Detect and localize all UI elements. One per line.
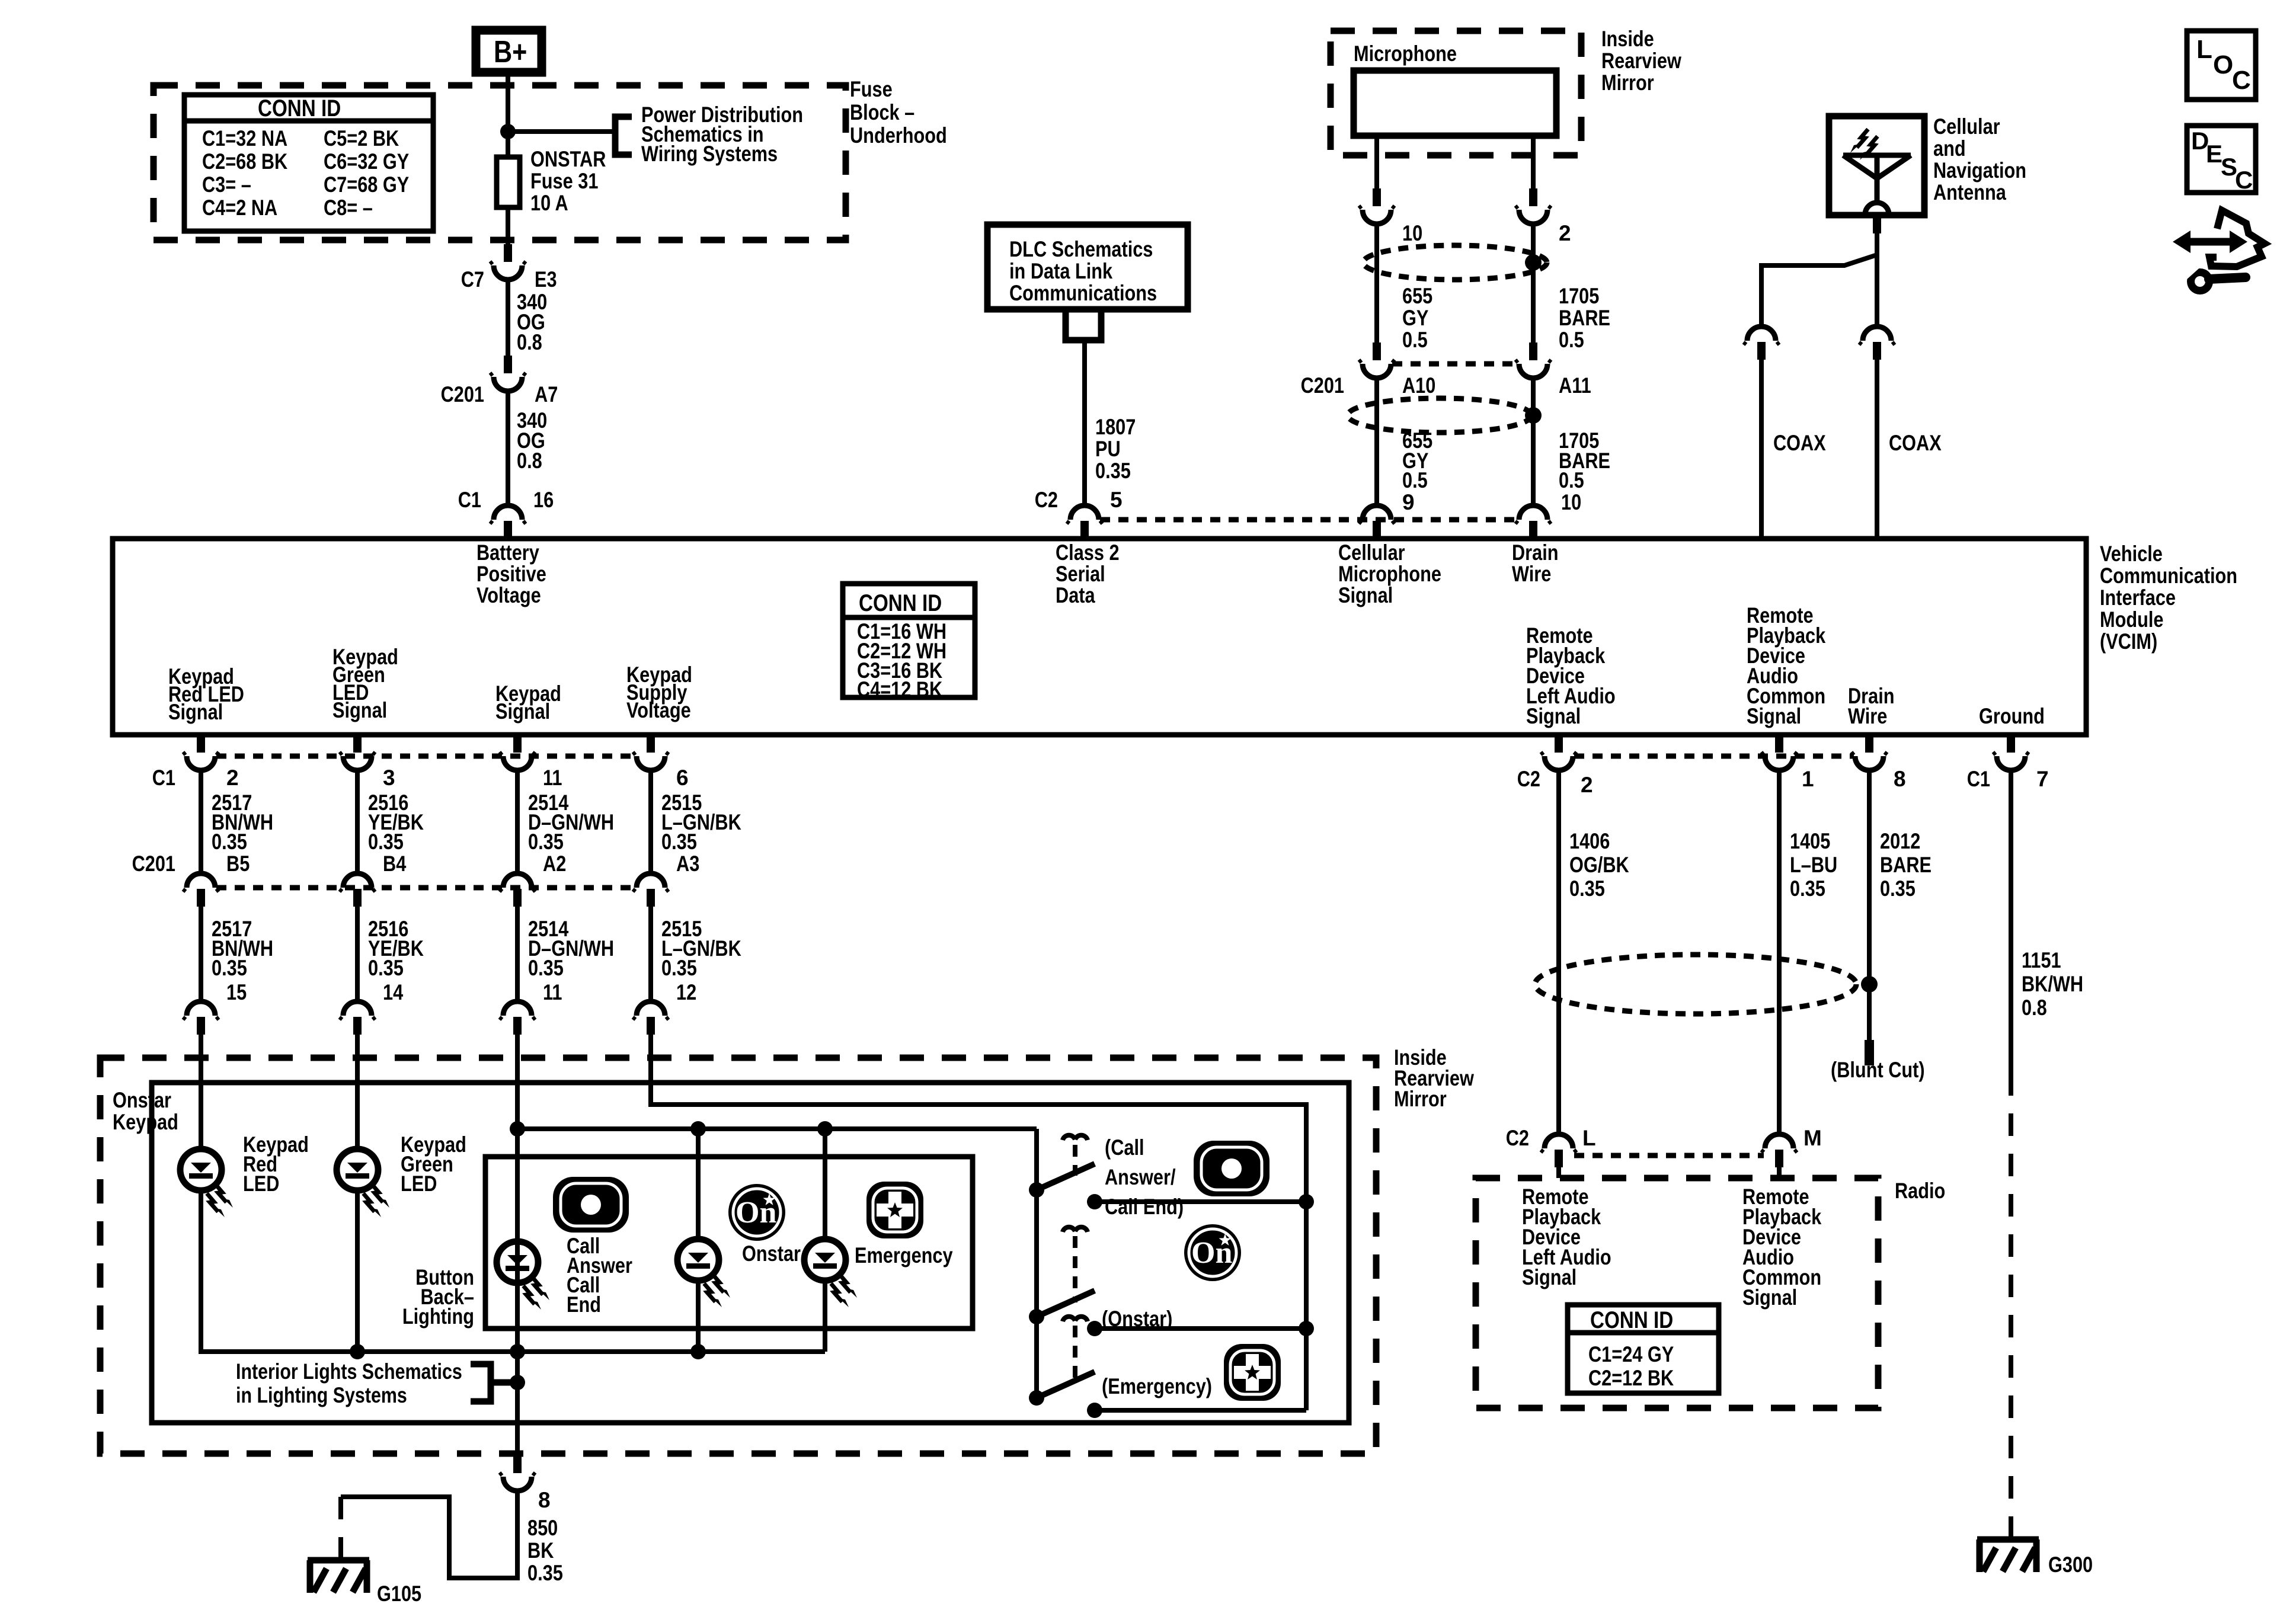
svg-text:Voltage: Voltage	[626, 698, 691, 722]
connector keypad pin 12	[633, 1001, 669, 1035]
svg-text:655: 655	[1402, 284, 1432, 308]
wire 2514 D-GN WH segment 2	[517, 907, 614, 1004]
pin label remote playback device audio common signal	[1747, 603, 1826, 728]
svg-text:in Data Link: in Data Link	[1009, 259, 1112, 283]
connector C7 pin E3	[461, 244, 557, 292]
svg-text:BK: BK	[527, 1538, 554, 1563]
svg-text:Underhood: Underhood	[850, 123, 947, 148]
wire 2514 D-GN WH segment 1	[517, 772, 614, 873]
wire backlight return	[515, 1352, 520, 1423]
pin label drain wire bottom	[1848, 684, 1895, 728]
svg-text:850: 850	[527, 1516, 558, 1540]
svg-text:C1=24 GY: C1=24 GY	[1588, 1342, 1674, 1366]
switch call answer	[1029, 1135, 1095, 1198]
svg-text:3: 3	[383, 766, 395, 790]
node junction at power tap	[500, 124, 516, 139]
pin label drain wire top	[1512, 540, 1559, 586]
svg-text:0.35: 0.35	[212, 956, 247, 980]
wire 2517 BN WH segment 1	[201, 772, 273, 873]
svg-text:C6=32 GY: C6=32 GY	[324, 149, 410, 174]
LED keypad green	[337, 1132, 466, 1217]
svg-text:Microphone: Microphone	[1354, 41, 1457, 66]
svg-text:Signal: Signal	[1747, 704, 1801, 728]
wire dashed drop to G105	[338, 1497, 343, 1558]
pin label keypad red LED signal	[168, 664, 244, 724]
svg-text:B+: B+	[494, 35, 527, 69]
svg-text:1807: 1807	[1095, 415, 1136, 439]
node call led cathode	[510, 1344, 525, 1359]
svg-text:10: 10	[1561, 490, 1581, 514]
svg-text:PU: PU	[1095, 437, 1121, 461]
dashed connector line C2 row top	[1100, 517, 1518, 523]
connector mic pin 10	[1359, 188, 1422, 245]
wire 2517 BN WH segment 2	[201, 907, 273, 1004]
svg-text:Answer/: Answer/	[1105, 1165, 1176, 1189]
svg-text:B5: B5	[226, 852, 250, 876]
wire supply voltage routing	[651, 1083, 1306, 1410]
wire mic left lead	[1374, 136, 1379, 188]
svg-text:BK/WH: BK/WH	[2022, 972, 2083, 996]
connector cellular microphone signal pin 9	[1359, 505, 1395, 539]
svg-text:ONSTAR: ONSTAR	[530, 147, 606, 171]
icon onstar right	[1184, 1224, 1241, 1281]
svg-text:Communications: Communications	[1009, 281, 1157, 305]
label power distribution schematics	[641, 103, 803, 166]
svg-text:(Call: (Call	[1105, 1135, 1144, 1160]
svg-text:Drain: Drain	[1512, 540, 1559, 565]
pin label remote playback left audio radio	[1522, 1185, 1611, 1289]
svg-text:(Emergency): (Emergency)	[1102, 1374, 1212, 1398]
svg-text:0.35: 0.35	[212, 830, 247, 854]
svg-text:End: End	[567, 1292, 601, 1317]
icon emergency right	[1224, 1344, 1281, 1401]
connector pin M radio	[1761, 1126, 1822, 1167]
wire 1705 BARE segment 2	[1533, 379, 1610, 514]
svg-text:DLC Schematics: DLC Schematics	[1009, 237, 1153, 261]
node onstar led cathode	[690, 1344, 706, 1359]
svg-text:Interface: Interface	[2100, 585, 2176, 610]
svg-text:C1: C1	[1967, 767, 1990, 791]
svg-text:16: 16	[533, 488, 554, 512]
dashed connector line C2 row below VCIM	[1574, 754, 1854, 759]
svg-text:9: 9	[1402, 490, 1415, 514]
icon emergency left	[866, 1182, 923, 1238]
node green led cathode	[350, 1344, 365, 1359]
wire call led down	[515, 1241, 520, 1352]
connector pin 8 below VCIM	[1851, 735, 1906, 791]
svg-text:Mirror: Mirror	[1601, 71, 1654, 95]
LOC box	[2187, 31, 2256, 100]
connector C201 pin A10	[1301, 343, 1436, 398]
connector C1 pin 2 below VCIM	[152, 735, 239, 790]
wire 2516 YE BK segment 1	[357, 772, 424, 873]
svg-text:C7: C7	[461, 267, 484, 292]
svg-text:C1=32 NA: C1=32 NA	[202, 126, 287, 151]
dashed connector line C1 row below VCIM	[216, 754, 635, 759]
svg-text:Fuse: Fuse	[850, 77, 893, 101]
svg-text:Communication: Communication	[2100, 564, 2237, 588]
svg-text:C4=2 NA: C4=2 NA	[202, 196, 277, 220]
svg-text:Signal: Signal	[1338, 583, 1393, 607]
wire COAX left	[1761, 360, 1826, 536]
svg-text:Signal: Signal	[1742, 1285, 1797, 1310]
connector keypad pin 14	[340, 1001, 375, 1035]
ground G300	[1977, 1539, 2093, 1577]
svg-text:0.5: 0.5	[1559, 328, 1584, 352]
svg-text:Rearview: Rearview	[1601, 49, 1681, 73]
svg-text:Module: Module	[2100, 607, 2164, 632]
node shield junction upper	[1525, 254, 1542, 271]
LED onstar	[677, 1129, 801, 1352]
conn id table fuse block	[184, 95, 433, 231]
svg-text:LED: LED	[243, 1172, 279, 1196]
svg-text:BARE: BARE	[1880, 853, 1932, 877]
ground G105	[308, 1560, 421, 1606]
switch emergency	[1029, 1317, 1095, 1406]
svg-text:C2: C2	[1506, 1126, 1529, 1150]
svg-text:2012: 2012	[1880, 829, 1920, 853]
wire dashed drop to G300	[2009, 1073, 2013, 1537]
connector C2 pin L radio	[1506, 1126, 1596, 1167]
svg-text:0.35: 0.35	[1095, 459, 1131, 483]
conn id table radio	[1568, 1305, 1719, 1393]
svg-text:LED: LED	[401, 1172, 437, 1196]
svg-text:0.5: 0.5	[1402, 328, 1428, 352]
svg-text:Antenna: Antenna	[1933, 180, 2006, 204]
svg-text:C4=12 BK: C4=12 BK	[857, 677, 942, 702]
svg-text:G300: G300	[2048, 1553, 2093, 1577]
svg-text:L: L	[2196, 35, 2212, 64]
connector C201 pin A3	[633, 852, 699, 907]
svg-text:Wiring Systems: Wiring Systems	[641, 142, 778, 166]
svg-text:and: and	[1933, 136, 1966, 161]
svg-text:Inside: Inside	[1601, 27, 1654, 51]
wire fuse to C7	[506, 207, 510, 244]
wire keypad leads into box	[201, 1035, 651, 1083]
bracket below DLC box	[1066, 309, 1101, 340]
connector C1 pin 7 below VCIM	[1967, 735, 2049, 791]
node interior lights tap	[510, 1375, 525, 1390]
svg-text:G105: G105	[377, 1582, 421, 1606]
svg-text:15: 15	[226, 980, 247, 1004]
svg-text:C1: C1	[152, 766, 175, 790]
wire 1405 L-BU	[1779, 772, 1837, 1134]
svg-text:C: C	[2232, 66, 2251, 95]
svg-text:0.35: 0.35	[368, 956, 404, 980]
connector pin 6 below VCIM	[633, 735, 689, 790]
icon call answer right	[1194, 1141, 1269, 1196]
fuse block underhood dashed box	[154, 85, 846, 240]
svg-text:Mirror: Mirror	[1394, 1087, 1447, 1111]
wire switch1 output	[1087, 1194, 1314, 1209]
svg-text:Block –: Block –	[850, 100, 914, 124]
wire mic right lead	[1531, 136, 1536, 188]
svg-text:Battery: Battery	[477, 540, 539, 565]
connector C201 pin A11	[1515, 343, 1591, 398]
twisted pair ellipse lower	[1348, 398, 1531, 433]
svg-text:C201: C201	[441, 382, 484, 406]
svg-text:0.35: 0.35	[1569, 876, 1605, 901]
node switch3 contact	[1087, 1403, 1102, 1418]
svg-text:in Lighting Systems: in Lighting Systems	[236, 1383, 407, 1407]
wire led anode bus	[517, 1126, 1037, 1131]
svg-text:0.5: 0.5	[1559, 468, 1584, 492]
button backlighting inner box	[485, 1157, 973, 1329]
svg-text:(Blunt Cut): (Blunt Cut)	[1831, 1058, 1925, 1082]
svg-text:Voltage: Voltage	[477, 583, 541, 607]
pin label keypad signal	[495, 681, 561, 724]
svg-text:0.35: 0.35	[527, 1561, 563, 1585]
pin label remote playback audio common radio	[1742, 1185, 1822, 1310]
svg-text:CONN ID: CONN ID	[258, 95, 341, 121]
wire COAX right	[1877, 360, 1942, 536]
svg-text:8: 8	[538, 1488, 551, 1512]
connector C201 pin A7	[441, 356, 558, 406]
pin label keypad green LED signal	[332, 645, 398, 722]
wire switch3 output	[1095, 1408, 1306, 1413]
svg-text:2: 2	[226, 766, 239, 790]
svg-text:C201: C201	[132, 852, 175, 876]
microphone box	[1354, 41, 1556, 136]
DESC box	[2187, 126, 2256, 194]
svg-text:OG/BK: OG/BK	[1569, 853, 1629, 877]
svg-text:0.8: 0.8	[517, 449, 542, 473]
svg-text:C3= –: C3= –	[202, 172, 251, 197]
wire led cathode bus	[201, 1190, 825, 1352]
svg-text:Signal: Signal	[332, 698, 387, 722]
connector C201 pin A2	[500, 852, 566, 907]
svg-text:GY: GY	[1402, 306, 1429, 330]
dashed connector line C201 row keypad	[216, 885, 635, 891]
wire 655 GY segment 2	[1377, 379, 1432, 514]
wire 1705 BARE segment 1	[1533, 225, 1610, 352]
connector C2 pin 2 below VCIM	[1517, 735, 1593, 797]
twisted pair ellipse audio	[1535, 955, 1856, 1014]
svg-text:A11: A11	[1559, 373, 1591, 398]
connector coax left	[1744, 327, 1779, 360]
wire keypad signal to led bus	[515, 1083, 520, 1241]
svg-text:(Onstar): (Onstar)	[1102, 1307, 1172, 1331]
svg-text:Cellular: Cellular	[1933, 114, 2000, 139]
svg-text:0.35: 0.35	[528, 830, 564, 854]
wire 1151 BK WH ground	[2011, 772, 2083, 1073]
svg-text:Signal: Signal	[1526, 704, 1581, 728]
svg-text:E: E	[2206, 140, 2223, 168]
svg-text:Positive: Positive	[477, 562, 546, 586]
svg-text:C2: C2	[1517, 767, 1540, 791]
connector drain wire pin 10	[1515, 505, 1551, 539]
keypad inner box	[152, 1083, 1349, 1423]
VCIM module box	[113, 539, 2086, 735]
connector C201 pin B4	[340, 852, 407, 907]
svg-text:E3: E3	[535, 267, 557, 292]
svg-text:Navigation: Navigation	[1933, 158, 2026, 183]
pin label class 2 serial data	[1056, 540, 1120, 607]
svg-text:0.35: 0.35	[1880, 876, 1916, 901]
svg-text:Signal: Signal	[1522, 1265, 1576, 1289]
svg-text:Interior Lights Schematics: Interior Lights Schematics	[236, 1359, 462, 1384]
svg-text:C: C	[2235, 166, 2253, 194]
conn id table VCIM	[843, 584, 975, 702]
svg-text:14: 14	[383, 980, 404, 1004]
svg-text:Radio: Radio	[1895, 1179, 1945, 1203]
svg-text:Signal: Signal	[168, 700, 223, 724]
pin label remote playback device left audio signal	[1526, 623, 1616, 728]
icon onstar left	[728, 1184, 785, 1241]
wire keypad green led feed	[355, 1083, 360, 1149]
svg-text:(VCIM): (VCIM)	[2100, 629, 2157, 654]
switch onstar	[1029, 1227, 1095, 1324]
wire 340 OG segment 2	[508, 392, 547, 505]
svg-text:C1: C1	[458, 488, 481, 512]
bracket power distribution	[615, 117, 632, 155]
wire 850 BK	[341, 1492, 563, 1585]
svg-text:0.5: 0.5	[1402, 468, 1428, 492]
svg-text:10: 10	[1402, 221, 1422, 245]
svg-text:Onstar: Onstar	[113, 1088, 171, 1112]
svg-text:0.35: 0.35	[661, 956, 697, 980]
svg-text:COAX: COAX	[1889, 431, 1942, 455]
svg-text:Vehicle: Vehicle	[2100, 542, 2163, 566]
battery feed B+	[476, 30, 542, 72]
svg-text:0.35: 0.35	[368, 830, 404, 854]
svg-text:A2: A2	[543, 852, 566, 876]
label button backlighting	[402, 1265, 474, 1329]
svg-text:11: 11	[543, 980, 562, 1004]
wire switch2 output	[1087, 1321, 1314, 1336]
svg-text:C7=68 GY: C7=68 GY	[324, 172, 410, 197]
label interior lights schematics	[236, 1359, 462, 1407]
label onstar keypad	[113, 1088, 178, 1134]
svg-text:1: 1	[1802, 767, 1814, 791]
wire 2516 YE BK segment 2	[357, 907, 424, 1004]
wire radio connector stubs	[1559, 1166, 1779, 1178]
svg-text:6: 6	[676, 766, 689, 790]
connector C201 pin B5	[132, 852, 250, 907]
svg-text:C5=2 BK: C5=2 BK	[324, 126, 399, 151]
LED call answer call end	[497, 1234, 632, 1317]
wire keypad return to pin 8	[515, 1423, 520, 1455]
svg-text:L: L	[1582, 1126, 1596, 1150]
svg-text:C8= –: C8= –	[324, 196, 373, 220]
node keypad signal tap	[510, 1121, 525, 1137]
pin label battery positive voltage	[477, 540, 546, 607]
twisted pair ellipse upper	[1363, 245, 1547, 280]
connector pin 1 below VCIM	[1761, 735, 1814, 791]
svg-text:Cellular: Cellular	[1338, 540, 1405, 565]
icon call answer left	[553, 1177, 629, 1233]
connector mic pin 2	[1515, 188, 1571, 245]
svg-text:Signal: Signal	[495, 699, 550, 724]
svg-text:10 A: 10 A	[530, 191, 568, 215]
blunt cut terminal	[1831, 1040, 1925, 1082]
wire tap to power distribution bracket	[508, 129, 615, 134]
svg-text:CONN ID: CONN ID	[1590, 1307, 1673, 1333]
label fuse block underhood	[850, 77, 947, 148]
svg-text:1406: 1406	[1569, 829, 1610, 853]
svg-text:0.35: 0.35	[661, 830, 697, 854]
wire 1807 PU class 2 serial data	[1085, 340, 1136, 505]
svg-text:1705: 1705	[1559, 284, 1599, 308]
svg-text:1405: 1405	[1790, 829, 1830, 853]
svg-text:Wire: Wire	[1848, 704, 1887, 728]
svg-text:Serial: Serial	[1056, 562, 1105, 586]
node emergency led tap	[817, 1121, 833, 1137]
pin label cellular microphone signal	[1338, 540, 1441, 607]
svg-text:2: 2	[1581, 773, 1593, 797]
dashed connector line radio row	[1574, 1153, 1764, 1158]
svg-text:M: M	[1803, 1126, 1822, 1150]
svg-text:2: 2	[1559, 221, 1571, 245]
svg-text:COAX: COAX	[1773, 431, 1826, 455]
svg-text:A7: A7	[535, 382, 558, 406]
svg-text:C201: C201	[1301, 373, 1344, 398]
svg-text:BARE: BARE	[1559, 306, 1610, 330]
svg-text:C2=12 BK: C2=12 BK	[1588, 1366, 1674, 1390]
svg-text:Microphone: Microphone	[1338, 562, 1441, 586]
svg-text:CONN ID: CONN ID	[859, 590, 942, 616]
svg-text:8: 8	[1894, 767, 1906, 791]
cellular and navigation antenna box	[1829, 116, 1924, 233]
svg-text:C2: C2	[1035, 488, 1058, 512]
svg-text:12: 12	[676, 980, 696, 1004]
wire antenna split	[1761, 233, 1877, 327]
dashed connector line C201 mirror row	[1392, 361, 1518, 367]
node audio shield junction	[1861, 976, 1878, 993]
wire 655 GY segment 1	[1377, 225, 1432, 352]
LED keypad red	[180, 1132, 309, 1217]
node shield junction lower	[1525, 407, 1542, 424]
connector keypad pin 8	[500, 1455, 551, 1512]
connector coax right	[1859, 327, 1895, 360]
svg-text:Keypad: Keypad	[113, 1110, 178, 1134]
svg-text:Class 2: Class 2	[1056, 540, 1120, 565]
svg-text:7: 7	[2036, 767, 2049, 791]
svg-text:O: O	[2213, 50, 2233, 79]
connector keypad pin 11b	[500, 1001, 535, 1035]
connector C2 pin 5 at VCIM	[1035, 488, 1123, 539]
svg-text:Data: Data	[1056, 583, 1095, 607]
label cellular and navigation antenna	[1933, 114, 2026, 204]
onstar keypad dashed box	[100, 1058, 1376, 1454]
pin label keypad supply voltage	[626, 662, 692, 722]
wire B+ to fuse	[506, 72, 510, 157]
bracket interior lights	[471, 1364, 517, 1401]
svg-text:L–BU: L–BU	[1790, 853, 1837, 877]
connector keypad pin 15	[183, 1001, 219, 1035]
wire keypad red led feed	[199, 1083, 203, 1149]
wire 2515 L-GN BK segment 2	[651, 907, 741, 1004]
fuse F31 ONSTAR	[497, 147, 606, 215]
label call answer call end	[1105, 1135, 1184, 1219]
svg-text:1151: 1151	[2022, 948, 2061, 972]
svg-text:0.8: 0.8	[2022, 996, 2047, 1020]
svg-text:Lighting: Lighting	[402, 1304, 474, 1329]
svg-text:0.8: 0.8	[517, 330, 542, 354]
DLC schematics box	[987, 225, 1188, 309]
wire 2012 BARE drain	[1869, 772, 1932, 1040]
svg-text:C2=68 BK: C2=68 BK	[202, 149, 287, 174]
label inside rearview mirror top	[1601, 27, 1681, 95]
svg-text:Wire: Wire	[1512, 562, 1551, 586]
LED emergency	[804, 1129, 953, 1352]
wire 340 OG segment 1	[508, 281, 547, 356]
wire 1406 OG BK	[1559, 772, 1629, 1134]
svg-text:0.35: 0.35	[1790, 876, 1825, 901]
svg-text:A3: A3	[676, 852, 699, 876]
svg-text:5: 5	[1110, 488, 1123, 512]
label vehicle communication interface module	[2100, 542, 2237, 654]
